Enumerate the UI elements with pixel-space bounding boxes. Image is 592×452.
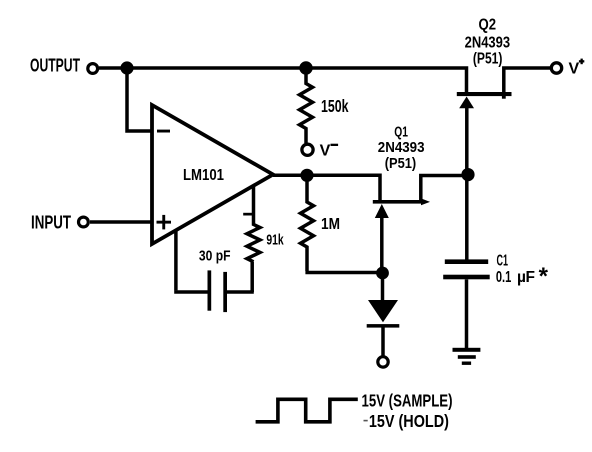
svg-text:LM101: LM101	[183, 167, 224, 184]
svg-text:OUTPUT: OUTPUT	[30, 55, 80, 76]
svg-text:15V (HOLD): 15V (HOLD)	[369, 411, 449, 431]
svg-text:F: F	[526, 269, 535, 286]
svg-text:91k: 91k	[266, 232, 284, 249]
svg-text:(P51): (P51)	[385, 156, 417, 172]
svg-text:2N4393: 2N4393	[465, 34, 511, 51]
svg-text:Q1: Q1	[394, 124, 408, 140]
svg-text:INPUT: INPUT	[31, 211, 72, 232]
svg-text:V: V	[320, 142, 331, 159]
svg-text:30 pF: 30 pF	[199, 247, 231, 264]
svg-text:(P51): (P51)	[473, 51, 503, 68]
svg-text:V: V	[569, 61, 580, 78]
svg-text:150k: 150k	[321, 96, 349, 116]
svg-text:0.1: 0.1	[496, 269, 512, 286]
svg-text:C1: C1	[497, 252, 509, 269]
svg-text:Q2: Q2	[479, 16, 497, 33]
svg-text:*: *	[539, 263, 549, 290]
svg-text:2N4393: 2N4393	[378, 140, 425, 156]
svg-text:1M: 1M	[321, 216, 340, 233]
svg-text:15V (SAMPLE): 15V (SAMPLE)	[362, 390, 453, 410]
